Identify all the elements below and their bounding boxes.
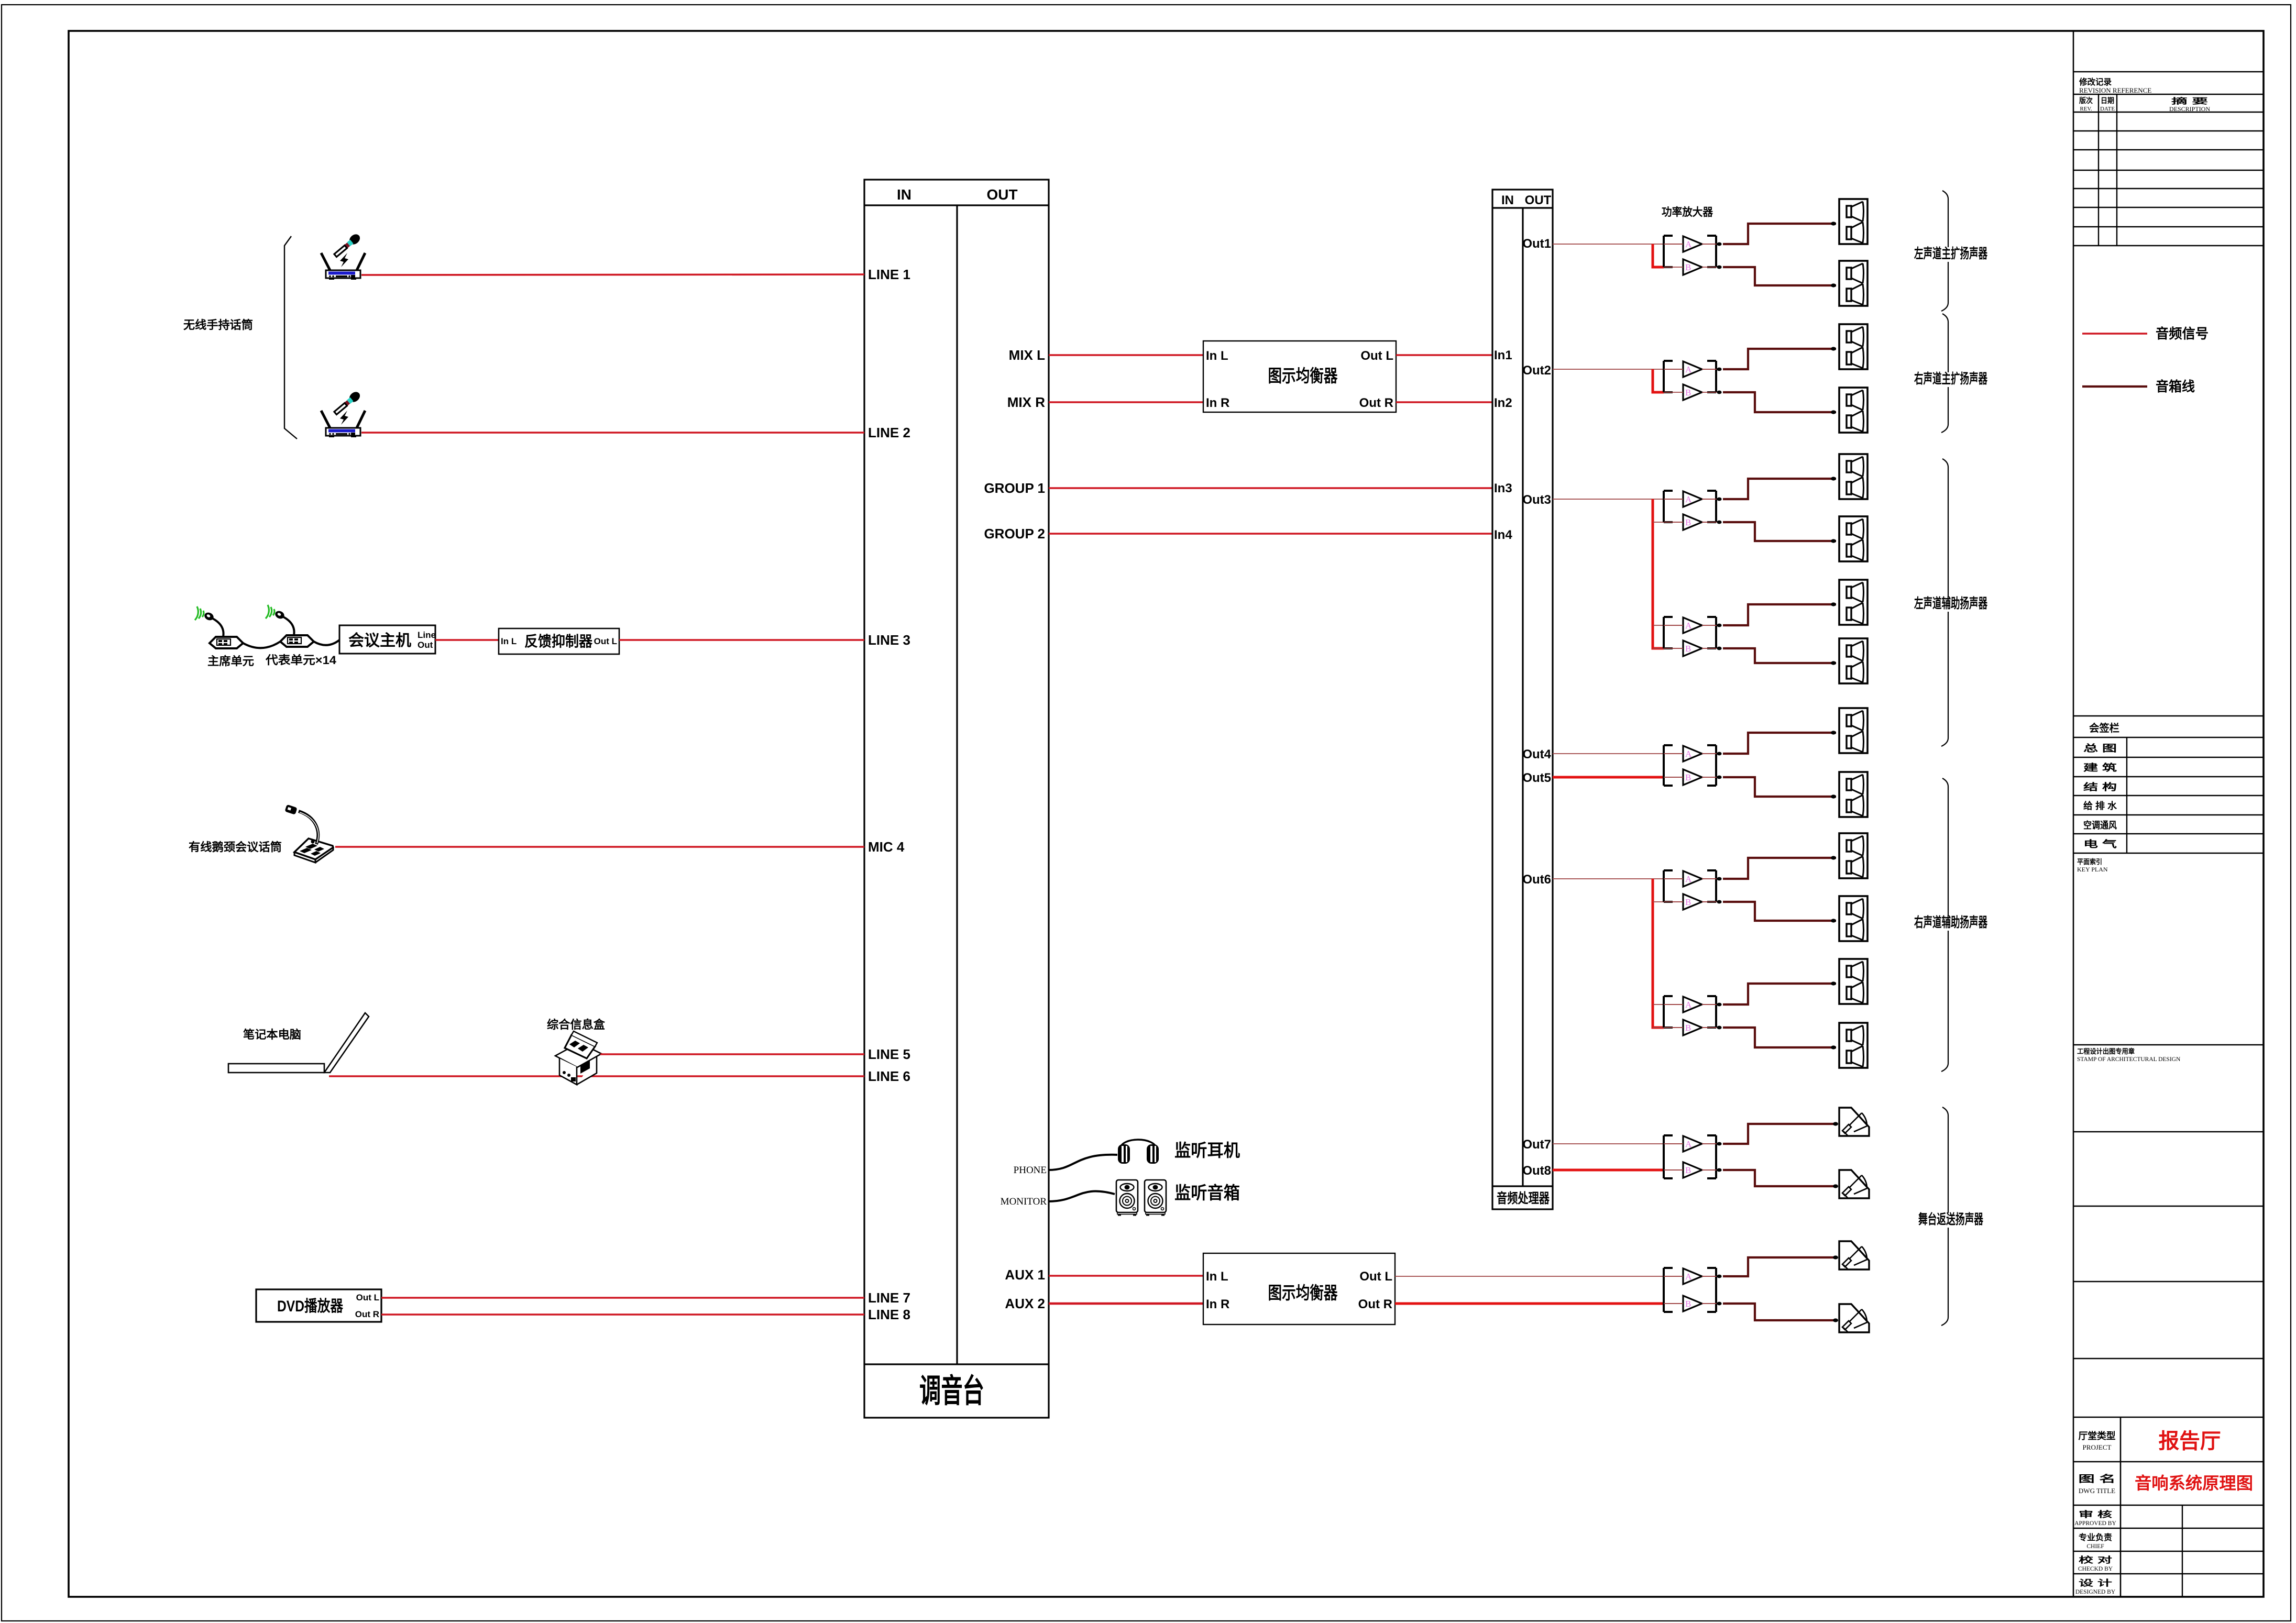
stage monitor speaker SM2 [1833,1170,1869,1198]
svg-text:DWG TITLE: DWG TITLE [2079,1487,2115,1495]
wire MIX R to EQ1 In R [1049,401,1203,403]
speaker wire SW16 [1723,1170,1836,1186]
branch stub to AMP7 A [1653,1004,1717,1005]
svg-text:B: B [1685,388,1691,398]
wire gooseneck mic to MIC 4 [335,846,864,848]
svg-text:平面索引: 平面索引 [2077,858,2102,866]
wire AUX1 to EQ2 In L [1049,1275,1203,1277]
svg-text:In L: In L [501,636,517,646]
label 右声道主扩扬声器 [1911,372,1990,387]
wire Out1 branch to AMP1 B [1653,244,1664,267]
power amplifier pair AMP7 [1664,996,1722,1028]
svg-text:PROJECT: PROJECT [2083,1443,2112,1451]
svg-text:REVISION REFERENCE: REVISION REFERENCE [2079,86,2151,94]
amplifier AMP2 internal feed lines [1664,369,1717,392]
svg-text:In4: In4 [1494,528,1512,542]
svg-text:报告厅: 报告厅 [2159,1430,2221,1453]
svg-text:LINE 7: LINE 7 [868,1290,910,1306]
power amplifier pair AMP1 [1664,236,1722,267]
processor header line [1492,207,1553,208]
wire Out8 to AMP8 B (bold) [1553,1169,1664,1172]
horn speaker SP9 [1831,708,1867,753]
svg-text:校 对: 校 对 [2079,1555,2112,1565]
svg-text:A: A [1685,874,1692,884]
svg-text:A: A [1685,239,1692,249]
wired gooseneck conference mic 有线鹅颈会议话筒 [284,804,333,863]
svg-text:AUX 1: AUX 1 [1005,1267,1045,1283]
wire Out2 to amplifier AMP2 [1553,369,1717,370]
dwg title row 图名 [2073,1505,2264,1506]
svg-text:DESIGNED BY: DESIGNED BY [2075,1589,2116,1595]
svg-text:OUT: OUT [1525,193,1552,207]
legend speaker line [2082,385,2147,388]
wire MONITOR to monitor speakers [1048,1191,1115,1201]
conference chairman mic unit 主席单元 [195,606,243,648]
svg-text:LINE 1: LINE 1 [868,267,910,282]
svg-text:In L: In L [1206,1269,1228,1284]
revision table header line [2073,94,2264,95]
speaker wire SW18 [1723,1304,1836,1320]
svg-text:OUT: OUT [986,186,1017,203]
svg-text:DATE: DATE [2100,106,2115,112]
horn speaker SP10 [1831,772,1867,817]
svg-text:B: B [1685,262,1691,272]
horn speaker SP7 [1831,580,1867,625]
signature row 建筑 [2073,776,2264,777]
wire Out2 branch to AMP2 B [1653,369,1664,392]
monitoring speaker left [1116,1180,1138,1216]
DVD player DVD播放器 box [256,1289,381,1322]
svg-text:In3: In3 [1494,481,1512,495]
svg-text:左声道主扩扬声器: 左声道主扩扬声器 [1914,246,1988,261]
amplifier AMP3 channel B triangle [1683,514,1722,530]
horn speaker SP2 [1831,261,1867,306]
project row 厅堂类型 [2073,1461,2264,1463]
svg-text:Out6: Out6 [1522,873,1551,887]
svg-text:图示均衡器: 图示均衡器 [1268,366,1338,385]
row 专业负责 CHIEF [2073,1551,2264,1552]
svg-text:版次: 版次 [2079,96,2093,105]
svg-text:Out L: Out L [1360,349,1393,363]
svg-text:IN: IN [1501,193,1514,207]
processor label section line [1492,1185,1553,1187]
wire Out3 branch down to AMP4 [1653,499,1664,648]
wire EQ1 OutL to processor In1 [1396,354,1492,356]
svg-text:CHIEF: CHIEF [2086,1543,2104,1550]
speaker wire SW2 [1723,267,1836,285]
wire EQ1 OutR to processor In2 [1396,401,1492,403]
speaker group brace B2 [1941,314,1948,433]
svg-text:MIC 4: MIC 4 [868,839,905,855]
svg-text:修改记录: 修改记录 [2079,77,2112,87]
svg-text:综合信息盒: 综合信息盒 [547,1018,606,1031]
revision table row lines [2073,112,2264,113]
speaker wire SW12 [1723,902,1836,921]
svg-text:监听音箱: 监听音箱 [1174,1183,1240,1202]
svg-text:In L: In L [1206,349,1228,363]
svg-text:Line: Line [418,630,436,640]
speaker wire SW15 [1723,1124,1836,1144]
stage monitor speaker SM3 [1833,1241,1869,1269]
svg-text:B: B [1685,644,1691,654]
approver middle divider [2182,1505,2183,1597]
svg-text:电 气: 电 气 [2083,838,2117,849]
power amplifier pair AMP9 [1664,1268,1722,1312]
horn speaker SP3 [1831,324,1867,369]
wire GROUP1 to processor In3 [1049,487,1492,489]
svg-text:反馈抑制器: 反馈抑制器 [524,633,593,649]
svg-text:A: A [1685,1139,1692,1149]
svg-text:日期: 日期 [2101,96,2114,105]
speaker wire SW3 [1723,349,1836,369]
branch stub to AMP3 B [1653,522,1717,523]
svg-text:LINE 8: LINE 8 [868,1307,910,1322]
amplifier AMP7 channel B triangle [1683,1020,1722,1035]
svg-text:Out5: Out5 [1522,771,1551,785]
stage monitor speaker SM4 [1833,1304,1869,1332]
stamp section line [2073,1044,2264,1046]
graphic equalizer 2 图示均衡器 box [1203,1253,1395,1324]
wire Out7 to AMP8 A [1553,1143,1717,1144]
amplifier AMP4 internal feed lines [1664,625,1717,648]
amplifier AMP9 channel B triangle [1683,1296,1722,1311]
svg-text:In1: In1 [1494,348,1512,362]
svg-text:PHONE: PHONE [1014,1165,1047,1176]
svg-text:左声道辅助扬声器: 左声道辅助扬声器 [1914,595,1988,611]
speaker wire SW4 [1723,392,1836,412]
wire AUX2 to EQ2 In R (bold) [1049,1302,1203,1305]
svg-text:B: B [1685,517,1691,527]
svg-text:A: A [1685,621,1692,631]
svg-text:舞台返送扬声器: 舞台返送扬声器 [1918,1211,1984,1227]
svg-text:无线手持话筒: 无线手持话筒 [183,318,253,332]
svg-text:Out L: Out L [594,636,617,646]
conference delegate mic unit 代表单元×14 [266,605,314,647]
svg-text:Out R: Out R [355,1309,379,1319]
horn speaker SP13 [1831,959,1867,1004]
svg-text:监听耳机: 监听耳机 [1174,1141,1240,1160]
wire Out5 to AMP5 B (bold) [1553,776,1664,779]
wire Out3 to amplifier AMP3 [1553,499,1717,500]
svg-text:Out L: Out L [1359,1269,1392,1284]
cable mic1 to mic2 [243,642,280,648]
monitoring headphones icon [1118,1140,1159,1164]
svg-text:MIX L: MIX L [1009,347,1045,363]
cable mic2 to conference host [314,640,339,645]
wire PHONE to headphones [1048,1155,1117,1170]
speaker wire SW9 [1723,733,1836,754]
svg-text:B: B [1685,1165,1691,1175]
svg-text:审 核: 审 核 [2079,1509,2112,1519]
wire Out6 branch down to AMP7 [1653,879,1664,1028]
legend audio signal line [2082,333,2147,335]
svg-text:建 筑: 建 筑 [2083,762,2117,773]
branch stub to AMP7 B [1653,1027,1717,1028]
svg-text:工程设计出图专用章: 工程设计出图专用章 [2077,1047,2135,1055]
amplifier AMP5 internal feed lines [1664,754,1717,777]
laptop 笔记本电脑 [228,1013,369,1073]
svg-text:会议主机: 会议主机 [348,632,411,649]
speaker group brace B1 [1941,191,1948,311]
horn speaker SP14 [1831,1023,1867,1068]
amplifier AMP3 internal feed lines [1664,499,1717,522]
svg-text:总 图: 总 图 [2083,743,2117,754]
svg-text:REV.: REV. [2080,106,2092,112]
mixer header line [864,204,1049,206]
amplifier AMP1 channel B triangle [1683,259,1722,275]
wire Out8 inside AMP8 [1664,1169,1717,1171]
amplifier AMP6 channel B triangle [1683,894,1722,910]
svg-text:设 计: 设 计 [2079,1578,2112,1588]
power amplifier pair AMP6 [1664,870,1722,902]
svg-text:Out4: Out4 [1522,747,1551,761]
stage monitor speaker SM1 [1833,1108,1869,1136]
svg-text:结 构: 结 构 [2083,781,2117,792]
horn speaker SP6 [1831,516,1867,561]
signature section 会签栏 [2073,715,2264,717]
svg-text:GROUP 2: GROUP 2 [984,526,1045,542]
svg-text:Out3: Out3 [1522,493,1551,507]
speaker wire SW10 [1723,777,1836,797]
branch stub to AMP4 B [1653,648,1717,649]
branch stub to AMP4 A [1653,625,1717,626]
svg-text:调音台: 调音台 [919,1373,984,1409]
svg-text:音频信号: 音频信号 [2156,326,2209,341]
mixer console 调音台 box [864,180,1049,1418]
horn speaker SP4 [1831,388,1867,433]
wire MIX L to EQ1 In L [1049,354,1203,356]
wire GROUP2 to processor In4 [1049,533,1492,535]
amplifier AMP8 internal feed lines [1664,1144,1717,1170]
svg-text:摘 要: 摘 要 [2171,96,2208,106]
svg-text:A: A [1685,365,1692,374]
svg-text:Out: Out [418,640,433,650]
svg-text:B: B [1685,897,1691,907]
svg-text:B: B [1685,1023,1691,1033]
wire suppressor to LINE 3 [619,639,864,641]
speaker wire SW7 [1723,604,1836,625]
horn speaker SP1 [1831,199,1867,244]
svg-text:音箱线: 音箱线 [2156,379,2195,394]
horn speaker SP5 [1831,454,1867,499]
svg-text:B: B [1685,772,1691,782]
power amplifier pair AMP4 [1664,617,1722,648]
processor column divider [1522,208,1523,1186]
wire Out1 to amplifier AMP1 [1553,244,1717,245]
wire Out6 to AMP6 A [1553,878,1717,879]
empty section lines [2073,1131,2264,1133]
wire host to feedback suppressor [435,639,499,641]
signature column divider [2126,737,2127,853]
svg-text:MIX R: MIX R [1007,394,1045,410]
speaker wire SW5 [1723,479,1836,499]
wire EQ2 OutR inside AMP9 [1664,1303,1717,1304]
amplifier AMP1 internal feed lines [1664,244,1717,267]
label 左声道辅助扬声器 [1911,597,1990,612]
wire DVD OutL to LINE 7 [381,1297,864,1299]
power amplifier pair AMP3 [1664,491,1722,522]
horn speaker SP12 [1831,896,1867,941]
revision table column lines [2098,94,2099,246]
speaker group brace B3 [1941,459,1948,746]
svg-text:右声道主扩扬声器: 右声道主扩扬声器 [1914,371,1988,387]
svg-text:音频处理器: 音频处理器 [1497,1190,1550,1206]
conference host 会议主机 box [339,625,435,654]
svg-text:厅堂类型: 厅堂类型 [2079,1430,2116,1441]
speaker wire SW1 [1723,224,1836,244]
svg-text:功率放大器: 功率放大器 [1662,206,1713,218]
speaker wire SW6 [1723,522,1836,541]
row 设计 DESIGNED BY [2073,1596,2264,1597]
svg-text:STAMP OF ARCHITECTURAL DESIGN: STAMP OF ARCHITECTURAL DESIGN [2077,1056,2181,1063]
svg-text:A: A [1685,1272,1692,1282]
label 舞台返送扬声器 [1916,1213,1986,1228]
svg-text:AUX 2: AUX 2 [1005,1296,1045,1311]
horn speaker SP11 [1831,833,1867,878]
svg-text:GROUP 1: GROUP 1 [984,480,1045,496]
amplifier AMP2 channel B triangle [1683,384,1722,400]
svg-text:右声道辅助扬声器: 右声道辅助扬声器 [1914,914,1988,930]
signature row 电气 [2073,853,2264,854]
svg-text:Out7: Out7 [1522,1138,1551,1152]
svg-text:A: A [1685,1000,1692,1010]
svg-text:Out2: Out2 [1522,363,1551,378]
svg-text:LINE 2: LINE 2 [868,425,910,440]
speaker wire SW17 [1723,1257,1836,1276]
floor info box 综合信息盒 [555,1031,601,1085]
feedback suppressor 反馈抑制器 box [499,628,619,654]
svg-text:MONITOR: MONITOR [1001,1196,1047,1207]
amplifier AMP5 channel B triangle [1683,769,1722,785]
svg-text:图 名: 图 名 [2079,1473,2116,1484]
svg-text:会签栏: 会签栏 [2089,722,2119,734]
wireless handheld mic receiver 2 [321,390,365,437]
svg-text:KEY PLAN: KEY PLAN [2077,866,2108,873]
wire DVD OutR to LINE 8 [381,1313,864,1316]
revision section top line [2073,71,2264,73]
svg-text:A: A [1685,494,1692,504]
speaker wire SW11 [1723,858,1836,879]
amplifier AMP9 internal feed lines [1664,1276,1717,1304]
svg-text:Out R: Out R [1359,396,1393,410]
svg-text:Out L: Out L [356,1293,379,1302]
wire Out5 inside AMP5 [1664,777,1717,778]
speaker wire SW14 [1723,1028,1836,1047]
wire EQ2 OutL to AMP9 A [1395,1276,1717,1277]
row 校对 CHECKD BY [2073,1573,2264,1574]
wire Out4 to AMP5 A [1553,753,1717,754]
label 右声道辅助扬声器 [1911,916,1990,931]
svg-text:笔记本电脑: 笔记本电脑 [243,1028,301,1041]
svg-text:A: A [1685,749,1692,759]
title block left border [2073,31,2074,1597]
signature row 总图 [2073,757,2264,758]
signature row 空调通风 [2073,833,2264,834]
row 审核 APPROVED BY [2073,1528,2264,1529]
audio processor 音频处理器 box [1492,190,1553,1209]
wire info box to LINE 5 [600,1053,864,1055]
power amplifier pair AMP8 [1664,1135,1722,1178]
wireless mic group bracket [284,236,297,439]
svg-text:有线鹅颈会议话筒: 有线鹅颈会议话筒 [189,841,282,854]
svg-text:Out R: Out R [1358,1297,1392,1311]
svg-text:给 排 水: 给 排 水 [2083,800,2117,811]
title block column divider [2120,1417,2122,1597]
speaker wire SW13 [1723,984,1836,1004]
amplifier AMP8 channel B triangle [1683,1162,1722,1178]
signature row 给排水 [2073,814,2264,815]
svg-text:IN: IN [897,186,911,203]
signature row 结构 [2073,795,2264,796]
label 左声道主扩扬声器 [1911,247,1990,262]
power amplifier pair AMP5 [1664,745,1722,786]
mixer label section line [864,1363,1049,1365]
svg-text:In R: In R [1206,1297,1229,1311]
svg-text:空调通风: 空调通风 [2083,820,2117,831]
svg-text:Out1: Out1 [1522,237,1551,251]
power amplifier pair AMP2 [1664,361,1722,392]
graphic equalizer 1 图示均衡器 box [1203,341,1396,412]
svg-text:专业负责: 专业负责 [2079,1532,2112,1542]
svg-text:音响系统原理图: 音响系统原理图 [2135,1474,2253,1493]
svg-text:Out8: Out8 [1522,1164,1551,1178]
speaker group brace B4 [1941,778,1948,1072]
svg-text:In R: In R [1206,396,1229,410]
amplifier AMP4 channel B triangle [1683,641,1722,656]
svg-text:LINE 3: LINE 3 [868,632,910,648]
mixer IN/OUT column divider [956,205,958,1364]
svg-text:主席单元: 主席单元 [207,655,254,668]
amplifier AMP7 internal feed lines [1664,1004,1717,1028]
svg-text:In2: In2 [1494,396,1512,410]
svg-text:B: B [1685,1299,1691,1309]
svg-text:DVD播放器: DVD播放器 [277,1298,344,1315]
horn speaker SP8 [1831,638,1867,683]
svg-text:APPROVED BY: APPROVED BY [2074,1520,2116,1527]
speaker wire SW8 [1723,648,1836,663]
monitoring speaker right [1145,1180,1166,1216]
speaker group brace B5 [1941,1107,1948,1326]
wire receiver2 to LINE 2 [361,432,864,434]
wire receiver1 to LINE 1 [361,274,864,275]
wireless handheld mic receiver 1 [321,232,365,280]
wire laptop to LINE 6 [329,1075,864,1077]
svg-text:图示均衡器: 图示均衡器 [1268,1283,1338,1302]
amplifier AMP6 internal feed lines [1664,879,1717,902]
branch stub to AMP6 B [1653,901,1717,902]
svg-text:LINE 5: LINE 5 [868,1046,910,1062]
svg-text:LINE 6: LINE 6 [868,1068,910,1084]
wire EQ2 OutR to AMP9 B (bold) [1395,1302,1664,1305]
svg-text:CHECKD BY: CHECKD BY [2078,1566,2113,1572]
svg-text:代表单元×14: 代表单元×14 [265,654,337,667]
